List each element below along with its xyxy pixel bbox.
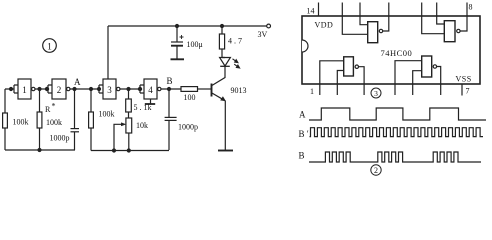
wire: emitter down to ground <box>224 101 226 151</box>
capacitor C3 1000p under node B <box>168 89 170 117</box>
LED light emission arrows <box>233 59 238 63</box>
transistor emitter with arrow <box>212 93 225 101</box>
wire: pin 9 to gate B input 1 <box>437 3 445 25</box>
svg-text:3: 3 <box>374 89 378 98</box>
wire: vertical from top rail down into gate 3 top <box>107 26 109 79</box>
LED cathode bar <box>220 65 230 67</box>
circled figure number 2 <box>371 165 381 175</box>
node: dot at gate2 input bracket <box>45 87 48 90</box>
wire: gate4 bottom to ground <box>150 99 152 104</box>
svg-text:8: 8 <box>469 3 473 12</box>
svg-text:1: 1 <box>310 87 314 96</box>
NAND gate A (top-left inside IC) <box>368 22 383 43</box>
IC notch on left edge <box>302 40 308 52</box>
svg-text:1: 1 <box>22 85 27 95</box>
node: junction wiper on right rail <box>113 149 116 152</box>
IC U1 74HC00 package outline <box>302 16 480 84</box>
wire: 5.1k to 10k <box>128 112 130 118</box>
svg-text:1: 1 <box>47 42 52 52</box>
svg-text:B: B <box>167 76 173 86</box>
node: junction on rail at 100u cap <box>176 25 179 28</box>
wire: gate3 output to gate4 input <box>120 88 140 90</box>
svg-text:5 . 1k: 5 . 1k <box>134 103 152 112</box>
node: junction on rail at 4.7 resistor <box>221 25 224 28</box>
svg-text:VSS: VSS <box>456 75 472 84</box>
wire: pin 1-line to gate C input 1 <box>320 61 344 95</box>
node: junction R* on left rail <box>38 149 41 152</box>
NAND gate B (top-right inside IC) <box>444 21 460 42</box>
svg-text:74HC00: 74HC00 <box>381 48 413 58</box>
wire: rail down to resistor 4.7 <box>221 26 223 34</box>
node: junction 10k on right rail <box>127 149 130 152</box>
wire: gate D output to pin 6 <box>437 67 441 96</box>
terminal: 3V supply circle <box>267 24 271 28</box>
wire: rail to capacitor C 100u <box>176 26 178 42</box>
wire: right ground rail <box>91 150 169 152</box>
ground bar at emitter <box>218 150 233 152</box>
wire: gate1 output to gate2 input <box>35 88 48 90</box>
wire: pin 12 to gate A input 1 <box>360 3 368 25</box>
transistor Q1 9013 base bar <box>211 84 213 97</box>
svg-text:4: 4 <box>148 85 153 95</box>
potentiometer RP 10k (vertical) <box>126 118 132 133</box>
waveform A trace <box>309 108 486 120</box>
plus sign of 100u cap <box>180 35 184 39</box>
svg-text:3: 3 <box>107 85 112 95</box>
wire: LED cathode to transistor collector <box>212 66 225 85</box>
potentiometer wiper arrow <box>114 124 123 150</box>
circled figure number 3 <box>371 88 381 98</box>
wire: node A from gate2 output to gate3 input <box>70 88 99 90</box>
resistor R1 100k (left, vertical) <box>4 89 6 113</box>
wire: +V top rail from gate 3 drop to 3V terminal <box>108 25 267 27</box>
pin 14 stub <box>318 3 320 17</box>
NAND gate D (bottom-right inside IC) <box>422 56 437 77</box>
svg-text:14: 14 <box>307 7 315 16</box>
NAND gate C (bottom-left inside IC) <box>344 57 359 76</box>
resistor R* 100k (vertical) <box>39 89 41 112</box>
svg-text:3V: 3V <box>258 30 268 39</box>
svg-text:1000p: 1000p <box>178 123 198 132</box>
waveform B trace <box>309 152 481 162</box>
svg-text:9013: 9013 <box>231 86 247 95</box>
node: junction at 5.1k top <box>127 88 130 91</box>
inverter gate 3 <box>98 79 121 99</box>
inverter gate 2 <box>48 79 70 99</box>
wire: left ground rail <box>5 149 75 151</box>
svg-text:100k: 100k <box>13 118 29 127</box>
wire: 100u cap to ground <box>176 47 178 60</box>
ground bar under gate 4 <box>145 103 155 105</box>
svg-text:1000p: 1000p <box>50 134 70 143</box>
LED D1 triangle <box>220 58 231 67</box>
svg-text:VDD: VDD <box>315 21 334 30</box>
svg-text:*: * <box>52 102 56 111</box>
inverter gate 1 <box>5 79 35 99</box>
svg-text:10k: 10k <box>136 121 148 130</box>
wire: gate A output to pin 11 <box>383 3 389 32</box>
capacitor C1 1000p under node A <box>74 89 76 128</box>
svg-text:B: B <box>299 151 305 161</box>
svg-text:100k: 100k <box>99 110 115 119</box>
wire: pin 2 to gate C input 2 <box>337 71 343 96</box>
svg-text:B ′: B ′ <box>299 129 309 139</box>
wire: gate B output to pin 8 <box>460 3 467 32</box>
svg-text:A: A <box>74 77 81 87</box>
capacitor C2 100u electrolytic plates <box>171 41 183 43</box>
wire: pin 4 to gate D input 1 <box>395 61 422 95</box>
node A junction dot <box>73 88 76 91</box>
svg-text:100μ: 100μ <box>187 40 203 49</box>
svg-text:100: 100 <box>184 93 196 102</box>
resistor R 4.7 (vertical box) <box>219 34 224 49</box>
ground bar under 100u cap <box>171 58 185 60</box>
inverter gate 4 <box>138 79 161 99</box>
svg-text:4 . 7: 4 . 7 <box>228 37 242 46</box>
wire: pin 5 to gate D input 2 <box>413 71 422 95</box>
wire: pin 13 to gate A input 2 <box>342 3 367 35</box>
svg-text:7: 7 <box>466 87 470 96</box>
node B junction dot <box>168 88 171 91</box>
node: junction at R* top <box>38 88 41 91</box>
svg-text:A: A <box>299 110 306 120</box>
wire: resistor 4.7 to LED anode <box>222 49 225 58</box>
wire: gate4 output to B node and 100 resistor <box>161 88 181 90</box>
svg-text:R: R <box>45 105 51 114</box>
circled figure number 1 <box>43 39 57 53</box>
pin 7 stub <box>461 84 463 96</box>
svg-text:2: 2 <box>57 85 62 95</box>
resistor R 100 (horizontal) <box>181 87 198 92</box>
waveform B' trace <box>310 128 483 137</box>
svg-text:2: 2 <box>374 166 378 175</box>
wire: 100 resistor to transistor base <box>198 88 212 90</box>
svg-text:100k: 100k <box>46 118 62 127</box>
node: junction at 100k (to gnd) <box>90 88 93 91</box>
resistor R2 100k (third, vertical) <box>90 89 92 112</box>
wire: pin 10 to gate B input 2 <box>422 3 445 34</box>
wire: gate C output to pin 3 <box>359 67 365 95</box>
resistor R3 5.1k (vertical) <box>128 89 130 99</box>
